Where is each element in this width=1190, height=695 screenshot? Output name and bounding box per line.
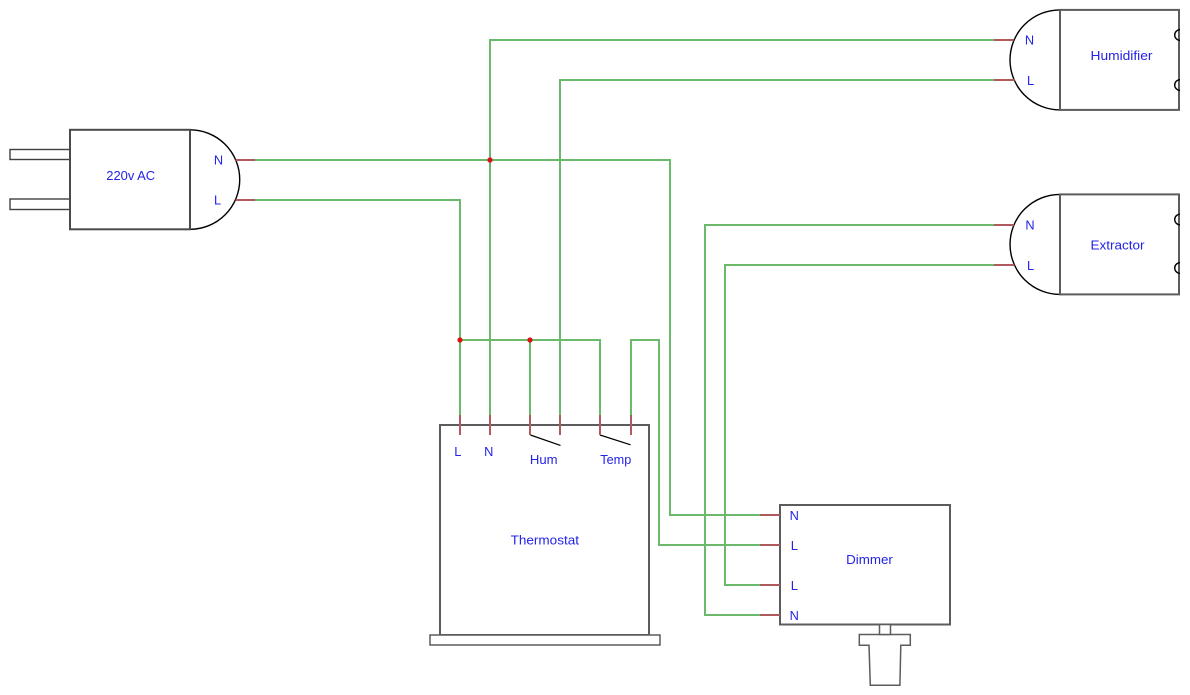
svg-text:Thermostat: Thermostat (511, 533, 580, 548)
svg-text:L: L (1027, 258, 1034, 273)
svg-text:Temp: Temp (600, 452, 631, 467)
svg-text:L: L (791, 538, 798, 553)
svg-text:N: N (214, 153, 223, 168)
svg-text:L: L (1027, 73, 1034, 88)
svg-text:L: L (454, 444, 461, 459)
svg-text:N: N (790, 508, 799, 523)
svg-text:Extractor: Extractor (1091, 237, 1146, 252)
svg-text:L: L (214, 193, 221, 208)
svg-text:L: L (791, 578, 798, 593)
svg-text:N: N (1025, 33, 1034, 48)
svg-text:Dimmer: Dimmer (846, 552, 894, 567)
svg-text:Humidifier: Humidifier (1091, 48, 1154, 63)
svg-text:220v AC: 220v AC (106, 168, 155, 183)
svg-text:N: N (484, 444, 493, 459)
svg-text:N: N (790, 608, 799, 623)
svg-text:Hum: Hum (530, 452, 558, 467)
svg-text:N: N (1025, 218, 1034, 233)
